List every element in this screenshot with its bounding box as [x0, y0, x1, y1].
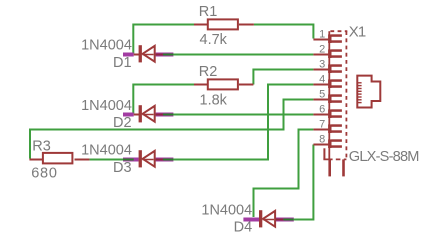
svg-text:R3: R3: [32, 138, 51, 154]
svg-text:4.7k: 4.7k: [200, 32, 228, 48]
svg-text:R2: R2: [199, 64, 218, 80]
svg-text:6: 6: [319, 104, 325, 116]
svg-text:GLX-S-88M: GLX-S-88M: [349, 149, 419, 165]
svg-text:D3: D3: [113, 160, 132, 176]
svg-text:1N4004: 1N4004: [81, 98, 132, 114]
svg-text:5: 5: [319, 89, 325, 101]
svg-text:R1: R1: [199, 4, 218, 20]
svg-text:3: 3: [319, 59, 325, 71]
svg-text:1N4004: 1N4004: [201, 203, 252, 219]
svg-text:X1: X1: [349, 23, 366, 40]
svg-text:680: 680: [31, 165, 58, 181]
svg-text:D4: D4: [234, 220, 253, 236]
svg-text:8: 8: [319, 134, 325, 146]
svg-text:1N4004: 1N4004: [81, 143, 132, 159]
svg-text:1N4004: 1N4004: [81, 38, 132, 54]
svg-text:2: 2: [319, 44, 325, 56]
svg-text:D1: D1: [113, 55, 132, 71]
svg-text:D2: D2: [113, 115, 132, 131]
svg-text:4: 4: [319, 74, 325, 86]
svg-text:7: 7: [319, 119, 325, 131]
svg-text:1.8k: 1.8k: [200, 92, 228, 108]
svg-text:1: 1: [319, 29, 325, 41]
